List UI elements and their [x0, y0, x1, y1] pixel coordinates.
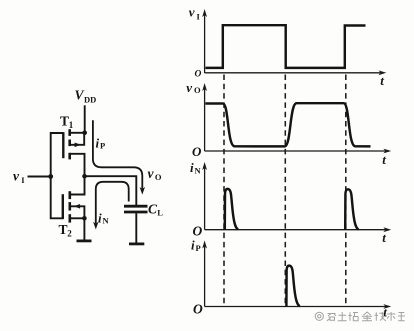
svg-text:1: 1 — [69, 120, 74, 130]
v_O plot time axis — [205, 150, 389, 152]
wire: input v_I to gate bus — [28, 176, 51, 178]
node: input junction dot — [48, 174, 53, 179]
wire: gate bus (to T1 and T2 gates) — [51, 133, 64, 218]
input label v_I — [13, 169, 25, 186]
wire: VDD down to T1 source — [84, 105, 86, 133]
current arrow i_P (charging path toward C_L) — [93, 120, 142, 189]
wire: T2 source to ground — [83, 218, 85, 240]
transistor T1 gate bar — [62, 132, 64, 158]
transistor T1 channel segments — [68, 129, 71, 159]
i_N plot y-axis — [204, 166, 206, 230]
capacitor C_L bottom plate — [124, 211, 148, 214]
node: T1 source/bulk junction dot — [82, 131, 87, 136]
svg-text:I: I — [197, 12, 201, 22]
transistor T2 bulk stub (NMOS) — [70, 206, 85, 218]
svg-text:N: N — [195, 166, 202, 176]
svg-text:t: t — [380, 73, 384, 88]
wire: C_L bottom lead — [135, 213, 137, 243]
svg-text:t: t — [382, 152, 386, 167]
svg-text:i: i — [96, 136, 100, 151]
timing dashed line 1 (first input rise) — [223, 75, 225, 307]
waveform v_I (square wave) — [206, 25, 366, 68]
svg-text:v: v — [13, 169, 20, 184]
svg-text:N: N — [103, 216, 110, 226]
svg-text:2: 2 — [67, 229, 72, 239]
output label v_O — [148, 166, 162, 182]
current label i_P — [96, 136, 106, 151]
svg-text:V: V — [75, 88, 85, 103]
svg-text:i: i — [190, 160, 194, 175]
ground (C_L) — [129, 242, 144, 245]
waveform i_N spike 2 — [345, 189, 358, 229]
i_P plot time axis — [205, 306, 389, 308]
transistor T2 label — [59, 222, 73, 239]
transistor T2 gate bar — [62, 194, 64, 219]
transistor T1 source stub (to VDD) — [70, 132, 85, 134]
watermark @稀土掘金技术社区 — [315, 312, 405, 321]
svg-text:P: P — [196, 243, 201, 253]
node: output junction dot — [82, 174, 87, 179]
ground (T2 source) — [77, 239, 92, 242]
svg-text:O: O — [193, 224, 203, 239]
svg-text:O: O — [194, 85, 201, 95]
svg-text:T: T — [60, 114, 69, 129]
axis label i_P (plot 4) — [191, 238, 201, 253]
svg-text:P: P — [100, 141, 105, 151]
svg-text:t: t — [382, 230, 386, 245]
transistor T1 PMOS bulk arrow — [75, 143, 81, 148]
timing dashed line 3 (second input rise) — [345, 75, 347, 307]
svg-text:DD: DD — [84, 95, 96, 105]
capacitor C_L top plate — [124, 205, 148, 208]
current label i_N — [98, 211, 110, 226]
svg-text:i: i — [98, 211, 102, 226]
transistor T2 NMOS bulk arrow — [74, 204, 80, 209]
transistor T2 channel segments — [69, 191, 72, 222]
power VDD label — [75, 88, 97, 105]
transistor T2 drain stub (to output node) — [70, 176, 85, 194]
transistor T1 label — [60, 114, 74, 131]
svg-text:v: v — [189, 5, 195, 20]
timing dashed line 2 (input fall) — [284, 75, 286, 307]
v_O plot y-axis — [204, 87, 206, 151]
transistor T2 source stub — [70, 217, 85, 219]
v_I plot time axis — [205, 72, 384, 74]
transistor T1 drain stub (to output node) — [70, 154, 85, 176]
node: T2 source/bulk junction dot — [82, 216, 87, 221]
svg-text:O: O — [155, 172, 162, 182]
wire: output node to C_L — [85, 176, 137, 205]
axis label i_N (plot 3) — [190, 160, 202, 176]
axis label v_I (plot 1) — [189, 5, 201, 22]
svg-text:v: v — [148, 166, 155, 181]
svg-text:O: O — [193, 301, 203, 316]
svg-text:L: L — [157, 208, 163, 218]
waveform i_P spike — [286, 266, 299, 307]
waveform v_O (inverted with RC edges) — [205, 103, 370, 146]
v_I plot y-axis — [204, 13, 206, 73]
current arrow i_N (discharge path via T2) — [96, 182, 129, 224]
i_P plot y-axis — [204, 245, 206, 307]
svg-text:O: O — [192, 144, 202, 159]
svg-text:i: i — [191, 238, 195, 253]
svg-text:v: v — [186, 80, 192, 95]
value label C_L — [148, 202, 163, 218]
svg-text:O: O — [195, 70, 202, 80]
transistor T1 bulk stub (PMOS) — [70, 133, 85, 145]
axis label v_O (plot 2) — [186, 80, 201, 95]
svg-text:t: t — [383, 304, 387, 319]
svg-text:I: I — [21, 175, 25, 185]
waveform i_N spike 1 — [225, 189, 238, 230]
svg-text:T: T — [59, 222, 68, 237]
i_N plot time axis — [205, 229, 389, 231]
